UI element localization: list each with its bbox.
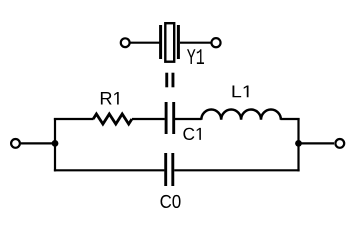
capacitor C0 [166, 153, 173, 186]
wire [21, 142, 55, 144]
wire left bus [54, 118, 56, 171]
resistor R1 [93, 114, 132, 124]
label Y1 [187, 49, 204, 64]
terminal circle right [335, 139, 344, 148]
wire [130, 42, 160, 44]
label C1 [183, 128, 200, 140]
wire bottom rail right [174, 169, 299, 171]
wire right bus [297, 118, 299, 171]
label R1 [101, 92, 119, 104]
terminal circle top-right [211, 38, 220, 47]
junction node right [295, 140, 302, 147]
wire [175, 118, 202, 120]
label L1 [233, 86, 249, 98]
capacitor C1 [166, 102, 174, 134]
wire top rail right [281, 118, 300, 120]
junction node left [52, 140, 59, 147]
wire [180, 42, 211, 44]
wire bottom rail left [54, 169, 164, 171]
inductor L1 [201, 110, 281, 120]
wire top rail left [54, 118, 94, 120]
label C0 [160, 195, 180, 208]
dashed equivalence marks [165, 73, 174, 88]
terminal circle left [11, 139, 20, 148]
wire [132, 118, 165, 120]
terminal circle top-left [121, 38, 130, 47]
crystal Y1 [161, 23, 179, 62]
wire [299, 142, 335, 144]
